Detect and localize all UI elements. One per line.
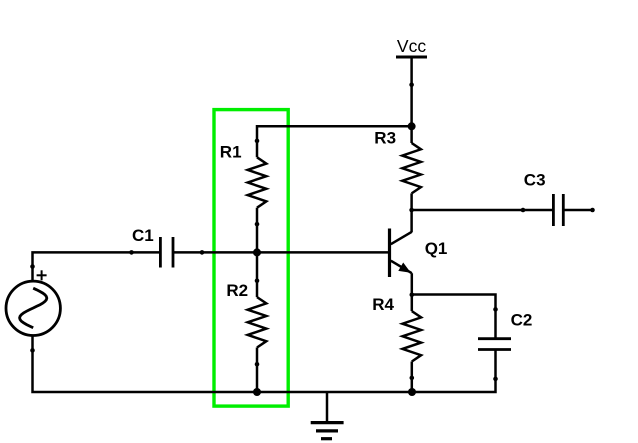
wire: C3 right lead [563, 209, 594, 212]
ground [311, 392, 344, 439]
pin nub: source top pin [30, 264, 35, 269]
pin nub: R4 bottom pin [410, 376, 415, 381]
svg-text:R1: R1 [220, 142, 242, 161]
Vcc supply bar [396, 56, 427, 59]
wire: R3 bottom lead / collector [410, 193, 413, 232]
highlight box (green) around R1/R2 [214, 110, 288, 407]
wire: R1 top to R3 top [257, 126, 412, 157]
transistor Q1 [390, 229, 412, 278]
wire: R2 bottom lead [256, 348, 259, 393]
pin nub: R3 bottom pin [409, 208, 414, 213]
wire: emitter node to C2 top [412, 295, 496, 339]
wire: emitter down [411, 273, 414, 294]
svg-text:R3: R3 [374, 128, 396, 147]
wire: collector to C3 [412, 209, 553, 212]
pin nub: R1 top pin [255, 139, 260, 144]
pin nub: C3 right pin [590, 208, 595, 213]
wire: Vcc to R3 node [410, 57, 413, 126]
resistor R2 [248, 297, 267, 347]
node: R4 bottom dot [408, 388, 416, 396]
node: R1/R2/base junction dot [253, 248, 261, 256]
wire: top-left horizontal from source to C1 [33, 252, 161, 281]
pin nub: C2 bottom pin [493, 377, 498, 382]
emitter arrow of Q1 [398, 263, 411, 273]
pin nub: C1 left pin [129, 250, 134, 255]
wire: C1 to transistor base [173, 251, 390, 254]
AC source V1 [6, 281, 60, 335]
pin nub: R2 top pin [255, 278, 260, 283]
node: R2 bottom dot [253, 388, 261, 396]
svg-text:Vcc: Vcc [397, 36, 426, 56]
capacitor C3 [553, 194, 563, 226]
svg-text:R2: R2 [226, 281, 248, 300]
svg-text:C1: C1 [132, 226, 154, 245]
resistor R3 [402, 143, 421, 193]
svg-text:C3: C3 [524, 170, 546, 189]
capacitor C1 [160, 237, 173, 268]
capacitor C2 [478, 339, 511, 350]
resistor R1 [248, 157, 267, 207]
wire: source bottom, ground rail, up to C2 bottom [33, 336, 496, 392]
pin nub: C3 left pin [521, 208, 526, 213]
wire: R4 bottom lead [411, 362, 414, 393]
pin nub: R2 bottom pin [255, 362, 260, 367]
svg-text:R4: R4 [372, 295, 394, 314]
svg-text:C2: C2 [511, 311, 533, 330]
pin nub: source bottom pin [30, 348, 35, 353]
svg-text:Q1: Q1 [425, 239, 448, 258]
pin nub: Vcc stem joint [409, 82, 414, 87]
wire: R2 top lead [256, 252, 259, 297]
pin nub: C1 right pin [200, 250, 205, 255]
wire: R1 bottom lead [256, 208, 259, 253]
pin nub: R4 top pin [410, 292, 415, 297]
resistor R4 [403, 311, 422, 361]
pin nub: C2 top pin [493, 307, 498, 312]
wire: R4 top lead [411, 295, 414, 312]
node: R3 top junction dot [408, 122, 416, 130]
wire: R3 top lead [410, 126, 413, 143]
pin nub: R1 bottom pin [255, 222, 260, 227]
plus sign of source [37, 270, 47, 280]
